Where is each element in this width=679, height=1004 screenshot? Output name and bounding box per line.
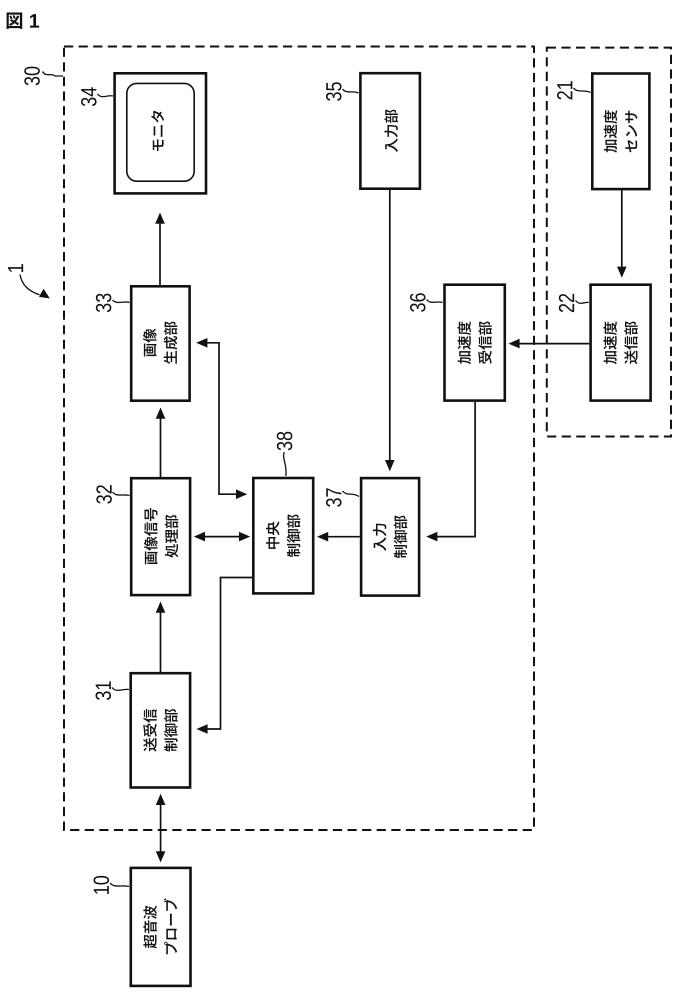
title 図 1 — [7, 13, 23, 29]
label 32 — [96, 485, 112, 503]
wire 38->31 — [202, 578, 252, 730]
box 37 入力制御部 — [361, 478, 419, 595]
label 33 — [96, 294, 112, 313]
box 34 text モニタ — [151, 111, 164, 151]
label 22 — [559, 294, 574, 312]
wire 31->32 — [160, 607, 162, 672]
box 34 monitor screen — [127, 83, 194, 181]
box 36 加速度受信部 — [445, 285, 505, 401]
label 36 — [410, 293, 426, 312]
label 38 — [277, 432, 293, 451]
label 10 — [93, 876, 109, 894]
label 37 — [326, 488, 342, 506]
box 31 送受信制御部 — [131, 673, 190, 787]
label 30 — [24, 67, 40, 86]
label 31 — [95, 681, 111, 699]
wire 33<->38 — [201, 343, 242, 494]
wire 31<->10 probe — [160, 799, 162, 857]
wire 37->38 — [322, 536, 360, 538]
box 35 入力部 — [360, 73, 420, 189]
wire 32->33 — [160, 413, 162, 477]
dashed box 20 : acceleration sensor unit — [547, 48, 671, 437]
wire 22->36 — [513, 343, 589, 345]
wire 32<->38 — [199, 536, 245, 538]
wire 21->22 — [621, 190, 623, 272]
dashed box 30 : apparatus body — [64, 47, 534, 831]
box 32 画像信号処理部 — [131, 478, 190, 595]
wire 33->monitor — [159, 218, 161, 285]
box 21 加速度センサ — [592, 74, 649, 190]
wire 35->37 — [389, 190, 391, 466]
box 38 中央制御部 — [253, 478, 313, 593]
label 35 — [326, 82, 342, 101]
label 21 — [557, 81, 572, 99]
box 33 画像生成部 — [131, 286, 189, 400]
label 1 with arrow — [8, 264, 23, 272]
box 22 加速度送信部 — [591, 285, 651, 401]
box 34 monitor outer — [115, 73, 206, 193]
wire 36->37 — [431, 402, 475, 537]
box 10 超音波プローブ — [131, 868, 191, 986]
label 34 — [81, 87, 97, 106]
